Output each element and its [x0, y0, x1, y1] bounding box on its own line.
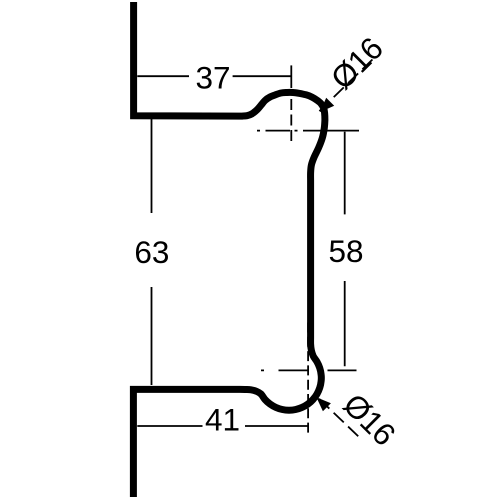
svg-text:41: 41: [205, 402, 240, 438]
svg-text:37: 37: [195, 59, 230, 95]
svg-text:63: 63: [134, 234, 169, 270]
svg-text:58: 58: [328, 233, 363, 269]
